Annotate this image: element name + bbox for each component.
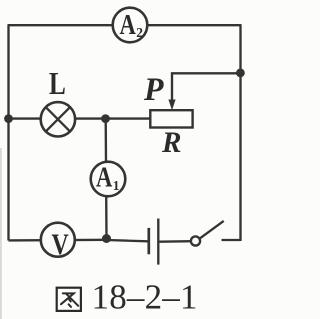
svg-text:P: P — [143, 72, 164, 108]
wire top — [8, 24, 242, 26]
lamp L — [41, 102, 75, 136]
svg-text:L: L — [49, 65, 66, 101]
svg-text:A: A — [96, 162, 112, 194]
ammeter A1 — [91, 162, 126, 197]
switch pivot — [191, 236, 200, 245]
junction right wire — [236, 69, 245, 78]
svg-text:1: 1 — [113, 178, 120, 193]
voltmeter V — [41, 223, 75, 262]
ammeter A2 — [113, 8, 148, 43]
junction lamp to A1 — [101, 114, 110, 123]
svg-text:A: A — [120, 9, 136, 41]
wire left — [7, 25, 9, 240]
rheostat slider arrow — [168, 100, 175, 111]
junction on left wire — [4, 114, 13, 123]
battery positive plate — [157, 219, 159, 265]
wire bottom left — [9, 239, 107, 242]
caption glyph 图 — [57, 288, 81, 311]
wire A1 branch — [105, 119, 108, 240]
wire slider to right — [172, 73, 241, 104]
svg-text:R: R — [161, 126, 181, 159]
svg-text:18–2–1: 18–2–1 — [92, 278, 198, 317]
svg-text:2: 2 — [136, 25, 143, 40]
svg-text:V: V — [52, 228, 69, 261]
rheostat R body — [150, 110, 192, 127]
wire battery to switch — [160, 240, 193, 243]
junction bottom A1 — [102, 234, 111, 243]
wire right — [239, 25, 241, 241]
switch lever — [200, 221, 224, 239]
battery negative plate — [147, 228, 150, 254]
wire bottom to battery — [107, 240, 148, 241]
wire middle lamp row — [9, 117, 152, 119]
switch fixed contact stub — [222, 239, 241, 241]
scan artifact left edge — [0, 148, 2, 319]
